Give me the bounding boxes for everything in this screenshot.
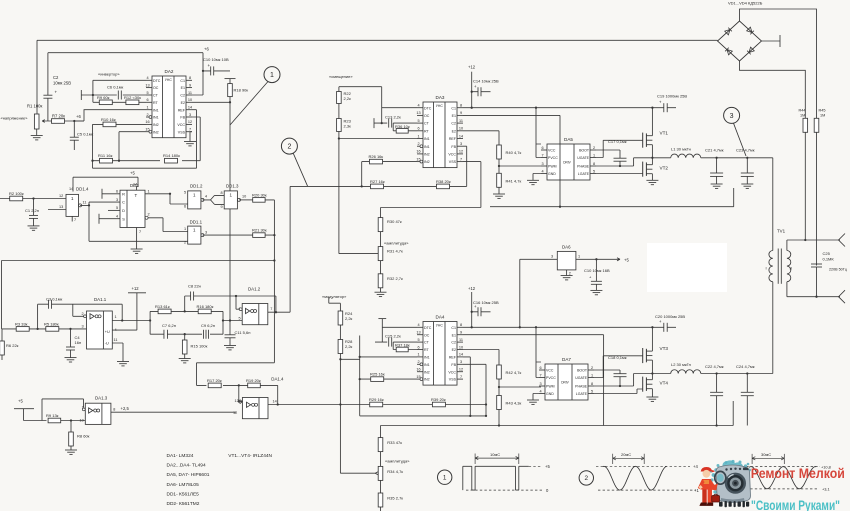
svg-text:PWM: PWM <box>548 165 557 169</box>
svg-text:OC: OC <box>153 86 159 90</box>
capacitor C4 16n <box>65 328 82 362</box>
svg-text:10: 10 <box>242 194 246 198</box>
svg-text:C19 1000мк 25В: C19 1000мк 25В <box>657 94 687 99</box>
svg-text:E1: E1 <box>452 333 456 337</box>
svg-text:2: 2 <box>591 366 593 370</box>
wire DA1.2 output <box>268 296 290 312</box>
svg-text:2,3к: 2,3к <box>344 124 352 129</box>
svg-text:4: 4 <box>539 389 541 393</box>
svg-text:+5: +5 <box>624 257 629 262</box>
svg-text:10: 10 <box>459 345 463 349</box>
waveform 1 square <box>463 452 551 493</box>
IC DA4 TL494 <box>423 322 457 386</box>
svg-text:REF: REF <box>449 137 457 141</box>
resistor R30 47k <box>378 208 402 232</box>
svg-text:E2: E2 <box>181 101 185 105</box>
diagram circle 1 <box>438 470 452 484</box>
svg-text:DTC: DTC <box>424 326 432 330</box>
resistor R17 20k <box>207 378 222 388</box>
wire output row buck2 <box>652 373 772 375</box>
svg-text:С23 4,7мк: С23 4,7мк <box>736 148 755 153</box>
svg-text:R2 100к: R2 100к <box>9 191 24 196</box>
svg-text:OC: OC <box>424 333 430 337</box>
IC DA2 TL494 <box>152 76 186 138</box>
wire R19 to DA1.4 feedback <box>277 385 279 404</box>
svg-text:1М: 1М <box>800 114 805 118</box>
svg-text:IN2: IN2 <box>424 378 430 382</box>
svg-text:11: 11 <box>83 201 87 205</box>
svg-text:8: 8 <box>113 407 115 411</box>
svg-text:II: II <box>790 266 792 271</box>
wire DA1.4 output long row <box>268 404 486 406</box>
junction R3 R5 <box>36 328 38 330</box>
wire DA5 BOOT to C17 <box>596 150 620 158</box>
svg-text:IN2: IN2 <box>153 130 159 134</box>
svg-text:VSS: VSS <box>178 130 186 134</box>
svg-text:DA1.2: DA1.2 <box>248 287 261 292</box>
callout line 3 <box>734 123 747 156</box>
wire DA4 IN1 row <box>360 356 417 358</box>
svg-text:R16 180к: R16 180к <box>197 304 214 309</box>
svg-text:С22 4,7мк: С22 4,7мк <box>705 364 724 369</box>
wire R35 bottom <box>380 507 382 511</box>
svg-text:RT: RT <box>424 348 430 352</box>
wire TV1 secondary bottom rail <box>787 282 840 297</box>
svg-text:R25 16к: R25 16к <box>370 372 385 377</box>
svg-text:C7 6,2н: C7 6,2н <box>162 323 176 328</box>
junction DD1.4 out <box>88 204 90 206</box>
wire DA1.2 out up to DA3 row <box>289 186 291 312</box>
svg-text:C2: C2 <box>180 94 185 98</box>
svg-text:30мС: 30мС <box>761 452 771 457</box>
svg-text:C2: C2 <box>451 341 456 345</box>
svg-text:10: 10 <box>459 127 463 131</box>
svg-text:11: 11 <box>459 338 463 342</box>
wire DA4 E2 to R42 <box>463 350 499 366</box>
svg-text:+3,1: +3,1 <box>822 487 830 492</box>
svg-text:+12: +12 <box>468 286 476 291</box>
svg-text:2: 2 <box>148 213 150 217</box>
svg-text:12: 12 <box>188 120 192 124</box>
wire DA2 pin15 drop <box>119 132 146 161</box>
wire DA5 LGATE to VT2 gate <box>596 173 643 175</box>
svg-text:+5: +5 <box>18 399 23 404</box>
svg-text:+6: +6 <box>76 114 81 119</box>
svg-text:DA1- LM324: DA1- LM324 <box>167 453 194 459</box>
svg-text:3: 3 <box>551 254 553 258</box>
svg-text:BOOT: BOOT <box>579 149 590 153</box>
svg-text:7: 7 <box>189 128 191 132</box>
svg-text:3: 3 <box>205 230 207 234</box>
power bar above R18 <box>225 78 236 80</box>
wire R40 R41 node to DA5 PWM <box>499 159 541 173</box>
terminal DA3 CT <box>373 118 375 128</box>
wire DA2 VSS ground <box>184 132 196 146</box>
svg-text:R30 47к: R30 47к <box>387 219 402 224</box>
svg-text:R19 20к: R19 20к <box>246 378 261 383</box>
wire DD2 D input <box>108 209 120 211</box>
svg-text:DD2: DD2 <box>130 183 139 188</box>
svg-text:10: 10 <box>188 98 192 102</box>
svg-text:R12 <30к: R12 <30к <box>124 95 141 100</box>
potentiometer R1 100k <box>27 104 43 130</box>
wire DD1.1 out to R21 <box>203 234 253 236</box>
svg-text:L1 30 мкГн: L1 30 мкГн <box>671 147 691 152</box>
svg-text:5: 5 <box>116 206 118 210</box>
svg-text:16н: 16н <box>75 340 82 345</box>
op-amp DA1.2 <box>236 287 272 325</box>
terminal DA4 CT <box>378 318 386 320</box>
capacitor C9 6.2n variable <box>201 323 215 339</box>
transistor VT3 <box>643 346 669 363</box>
wire VT1 source to output node <box>651 145 653 158</box>
svg-text:2,2к: 2,2к <box>344 96 352 101</box>
IC DA6 LM78L05 <box>557 245 576 270</box>
svg-text:R3 33к: R3 33к <box>15 321 28 326</box>
wire DA3 pin15 row <box>362 162 417 187</box>
svg-text:DA5, DA7- HIP6601: DA5, DA7- HIP6601 <box>167 472 210 478</box>
resistor R34 4.7k potentiometer <box>378 452 403 481</box>
svg-text:8: 8 <box>460 323 462 327</box>
svg-text:3: 3 <box>730 113 734 120</box>
resistor R20 30k <box>252 192 267 202</box>
wire DA2 E2 to R18 line <box>192 101 230 103</box>
wire DA7 LGATE to VT4 gate <box>594 389 643 394</box>
wire DA1.1 pin4 +12 <box>112 293 146 330</box>
capacitor C18 0.1mk <box>608 355 627 377</box>
capacitor C15 2.2n <box>385 334 401 347</box>
svg-text:IN1: IN1 <box>153 116 159 120</box>
svg-text:REF: REF <box>449 356 457 360</box>
junction y260 <box>273 259 275 261</box>
wire R9 to DA1.3 <box>61 420 86 422</box>
svg-text:VSS: VSS <box>449 378 457 382</box>
svg-text:1: 1 <box>115 315 117 319</box>
svg-text:C1: C1 <box>451 326 456 330</box>
wire DA7 PVCC join <box>536 362 539 378</box>
svg-text:R39 20к: R39 20к <box>431 397 446 402</box>
wire DA4 E1 to bus <box>463 335 604 426</box>
wire R43 to bus <box>498 410 500 426</box>
svg-text:3: 3 <box>116 198 118 202</box>
svg-text:VCC: VCC <box>546 369 554 373</box>
svg-text:PHASE: PHASE <box>577 165 590 169</box>
IC DA5 HIP6601 <box>547 144 590 180</box>
capacitor C16 <box>471 300 499 316</box>
resistor R16 180k <box>197 304 214 314</box>
svg-text:DA1.4: DA1.4 <box>271 377 284 382</box>
resistor R42 4.7k <box>497 365 522 379</box>
svg-text:R15 100к: R15 100к <box>191 344 208 349</box>
svg-text:«инвертор»: «инвертор» <box>98 72 120 77</box>
wire DA7 PHASE <box>594 374 652 387</box>
capacitor C2 <box>43 53 71 121</box>
svg-text:R27 16к: R27 16к <box>370 179 385 184</box>
svg-text:R9 13к: R9 13к <box>46 413 59 418</box>
svg-text:6: 6 <box>541 146 543 150</box>
wire long feedback row y260 <box>2 260 275 262</box>
svg-text:20мС: 20мС <box>621 452 631 457</box>
svg-text:2,2к: 2,2к <box>345 344 353 349</box>
wire +5 bar <box>14 409 47 421</box>
wire DA4 RT row <box>393 349 417 351</box>
svg-text:R42 4,7к: R42 4,7к <box>506 370 522 375</box>
wire DA4 DTC row <box>382 326 417 328</box>
svg-text:3: 3 <box>541 162 543 166</box>
svg-text:R10 16к: R10 16к <box>101 117 116 122</box>
svg-text:C15 2,2к: C15 2,2к <box>385 334 401 339</box>
wire DD1.3 out to R20 <box>239 199 253 201</box>
svg-text:IN2: IN2 <box>424 160 430 164</box>
svg-text:R13 61к: R13 61к <box>155 304 170 309</box>
svg-text:VT2: VT2 <box>660 166 669 171</box>
resistor R10 16k <box>101 117 116 127</box>
wire VT4 drain <box>651 374 653 380</box>
resistor R9b 13k <box>46 413 61 423</box>
capacitor C8 22n feedback <box>185 284 276 312</box>
svg-text:C14 10мк 25В: C14 10мк 25В <box>473 79 499 84</box>
svg-text:«модулятор»: «модулятор» <box>322 294 347 299</box>
inductor L2 <box>671 362 701 374</box>
junction return rail <box>559 206 561 208</box>
svg-text:PVCC: PVCC <box>546 376 556 380</box>
svg-text:R32 2,7к: R32 2,7к <box>387 276 403 281</box>
wire +12 DA3 <box>471 72 473 108</box>
resistor R9 60k <box>97 95 112 105</box>
wire +5 rail DD <box>73 177 138 191</box>
svg-text:DA6- LM78L05: DA6- LM78L05 <box>167 482 200 488</box>
return rail buck1 <box>490 188 734 207</box>
svg-text:VT1: VT1 <box>660 131 669 136</box>
svg-text:C3 0,1мк: C3 0,1мк <box>46 297 63 302</box>
svg-text:8: 8 <box>460 104 462 108</box>
svg-text:14: 14 <box>273 399 277 403</box>
wire DA3 DTC row <box>382 107 417 109</box>
svg-text:1: 1 <box>593 153 595 157</box>
watermark open door ring <box>715 471 726 484</box>
wire buck2 output up to TV1 primary <box>772 282 774 374</box>
svg-text:14: 14 <box>188 106 192 110</box>
svg-text:2: 2 <box>593 146 595 150</box>
svg-text:R14 180к: R14 180к <box>163 153 180 158</box>
svg-text:DTC: DTC <box>153 79 161 83</box>
svg-text:R35 2,7к: R35 2,7к <box>387 496 403 501</box>
svg-text:BOOT: BOOT <box>577 369 588 373</box>
gate DD1.3 <box>224 183 240 209</box>
junction E2 <box>229 101 231 103</box>
op-amp DA1.1 <box>82 297 118 349</box>
svg-text:E1: E1 <box>181 86 185 90</box>
IC DA3 TL494 <box>423 102 457 168</box>
capacitor C12 2.2n <box>385 114 401 127</box>
wire output row buck1 <box>652 157 772 159</box>
resistor R29 16k <box>369 397 384 407</box>
capacitor C3 0.1mk feedback <box>38 297 123 329</box>
svg-text:DA6: DA6 <box>562 245 571 250</box>
svg-text:R21 30к: R21 30к <box>252 228 267 233</box>
svg-text:R26 16к: R26 16к <box>369 154 384 159</box>
wire DA2 DTC loop <box>93 80 146 102</box>
callout circle 2 <box>281 138 297 154</box>
wire DA2 C2 pin to +6 <box>192 53 203 95</box>
svg-text:2: 2 <box>184 241 186 245</box>
svg-text:13: 13 <box>416 331 420 335</box>
svg-text:5: 5 <box>593 169 595 173</box>
junction y186 <box>361 185 363 187</box>
capacitor C10 <box>203 57 230 75</box>
svg-text:DA3: DA3 <box>436 95 445 100</box>
svg-text:13: 13 <box>59 205 63 209</box>
svg-text:4: 4 <box>541 169 543 173</box>
svg-text:IN2: IN2 <box>424 153 430 157</box>
resistor R31 4.7k <box>378 232 403 261</box>
wire VT2 drain <box>651 158 653 165</box>
wire R30 top to DA3 VSS <box>381 162 481 208</box>
svg-text:R41 4,7к: R41 4,7к <box>506 178 522 183</box>
svg-text:C1: C1 <box>180 79 185 83</box>
svg-text:1: 1 <box>578 254 580 258</box>
wire R10 row <box>93 123 147 125</box>
svg-text:12: 12 <box>459 368 463 372</box>
wire DD2 out2 to DD1.1 <box>145 216 148 219</box>
junction +6 vertical <box>202 70 204 72</box>
svg-text:R: R <box>122 191 125 196</box>
svg-text:LGATE: LGATE <box>576 392 588 396</box>
svg-text:1: 1 <box>184 227 186 231</box>
label DD1.4 pin7 <box>72 216 76 222</box>
svg-text:+1: +1 <box>694 488 699 493</box>
junction C1 <box>32 197 34 199</box>
svg-text:С10 10мк 10В: С10 10мк 10В <box>203 57 229 62</box>
svg-text:R29 16к: R29 16к <box>369 397 384 402</box>
wire R45 down to C25 <box>816 132 818 265</box>
svg-text:С1 2,2н: С1 2,2н <box>25 208 39 213</box>
output terminal top <box>839 234 846 247</box>
svg-text:7: 7 <box>460 157 462 161</box>
svg-text:DD1.4: DD1.4 <box>76 187 89 192</box>
svg-text:С21 4,7мк: С21 4,7мк <box>705 148 724 153</box>
svg-text:8: 8 <box>221 191 223 195</box>
resistor R28 2.2k <box>338 325 353 354</box>
callout circle 3 <box>724 107 740 123</box>
inductor L1 <box>671 147 701 158</box>
svg-text:1: 1 <box>417 353 419 357</box>
wire DA1.3 output +2.5 long <box>111 411 236 413</box>
resistor R3 33k <box>15 321 29 331</box>
svg-text:2: 2 <box>82 312 84 316</box>
junction secondary rails <box>804 239 806 241</box>
wire DA7 UGATE to VT3 gate <box>594 356 643 378</box>
svg-text:VT4: VT4 <box>660 381 669 386</box>
svg-text:+: + <box>208 63 211 68</box>
wire bridge bottom to R44 rail <box>740 61 806 119</box>
junction DA2 left network <box>92 94 94 96</box>
transistor VT4 <box>643 377 669 392</box>
svg-text:0,1МК: 0,1МК <box>823 257 835 262</box>
wire oscillator top rail <box>150 310 223 312</box>
svg-text:+: + <box>55 90 58 95</box>
svg-text:RT: RT <box>424 129 430 133</box>
svg-text:C9 6,2н: C9 6,2н <box>201 323 215 328</box>
wire buck1 output down to TV1 primary <box>772 158 774 251</box>
wire R2 row to DD1.4 pin12 <box>0 198 66 200</box>
wire DD1.4 pin13 <box>48 209 66 211</box>
terminal DD2 R input <box>102 189 120 199</box>
wire DA2 CT row <box>81 94 146 96</box>
svg-text:5: 5 <box>184 191 186 195</box>
resistor R21 30k <box>252 228 267 238</box>
svg-text:10: 10 <box>80 419 84 423</box>
svg-text:LGATE: LGATE <box>578 172 590 176</box>
wire pin13 drop <box>239 385 243 401</box>
resistor R23 2.3k <box>337 119 352 132</box>
svg-text:5: 5 <box>239 316 241 320</box>
resistor R5 180k <box>44 321 59 331</box>
wire DA6 input <box>520 259 558 327</box>
resistor R44 <box>799 109 808 133</box>
resistor R24 2.2k <box>329 297 353 325</box>
ground under R1 <box>31 129 43 140</box>
svg-text:«амплитуда»: «амплитуда» <box>385 459 410 464</box>
wire DD2 out1 to DD1.2 <box>145 194 188 204</box>
svg-text:14: 14 <box>69 187 73 191</box>
svg-text:IN1: IN1 <box>424 363 430 367</box>
IC DD2 K561TM2 <box>120 183 145 249</box>
wire DA2 IN1 from R7 node <box>74 110 146 121</box>
resistor R22 2.2k <box>337 91 352 104</box>
svg-text:R1 100к: R1 100к <box>27 104 43 109</box>
svg-text:DTC: DTC <box>424 106 432 110</box>
svg-text:DD1.3: DD1.3 <box>226 183 239 188</box>
svg-text:4: 4 <box>417 323 419 327</box>
waveform 3 sine <box>737 452 831 492</box>
svg-text:R11 16к: R11 16к <box>98 153 113 158</box>
capacitor C7 6.2n <box>162 323 176 339</box>
svg-text:6: 6 <box>539 366 541 370</box>
svg-text:9: 9 <box>221 205 223 209</box>
svg-text:+2,5: +2,5 <box>121 406 130 411</box>
svg-text:R36 10к: R36 10к <box>395 124 410 129</box>
svg-text:6: 6 <box>184 205 186 209</box>
svg-text:2: 2 <box>146 113 148 117</box>
svg-text:VT3: VT3 <box>660 346 669 351</box>
wire DA4 power row to C20 and VT3 <box>463 327 652 362</box>
junction R21 join <box>273 234 275 236</box>
svg-text:I: I <box>766 266 767 271</box>
capacitor C21 4.7mk <box>705 148 724 189</box>
svg-text:VCC: VCC <box>448 370 456 374</box>
wire R18 vertical down to oscillator <box>229 98 231 321</box>
resistor R12 30k <box>124 95 141 104</box>
svg-text:DD1.2: DD1.2 <box>190 183 203 188</box>
wire R3 R5 row <box>2 328 87 330</box>
svg-text:7: 7 <box>74 218 76 222</box>
svg-text:DD2- К561ТМ2: DD2- К561ТМ2 <box>167 501 200 507</box>
wire DA3 CT row <box>374 123 417 131</box>
svg-text:DA7: DA7 <box>562 357 571 362</box>
capacitor C24 4.7mk <box>736 364 755 426</box>
wire +12 DA4 <box>471 292 473 327</box>
svg-text:3: 3 <box>460 360 462 364</box>
wire R11-R14 row <box>93 160 201 162</box>
svg-text:13: 13 <box>145 83 149 87</box>
svg-text:2: 2 <box>585 475 589 482</box>
capacitor C5 0.1mk <box>70 121 94 150</box>
svg-text:5: 5 <box>417 338 419 342</box>
svg-text:VD1...VD4 КД522Б: VD1...VD4 КД522Б <box>728 1 763 6</box>
resistor R41 4.7k <box>497 173 502 187</box>
svg-text:TV1: TV1 <box>777 229 786 234</box>
